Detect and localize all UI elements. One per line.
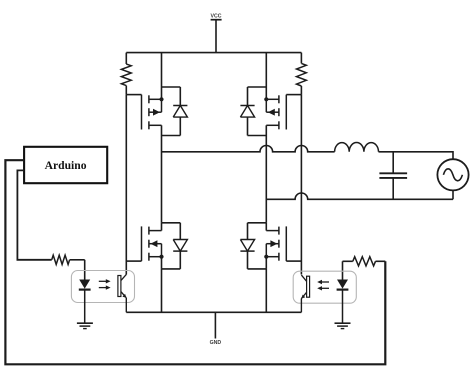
- wire left gate line: [125, 95, 127, 275]
- power flag VCC: [211, 14, 222, 20]
- svg-text:VCC: VCC: [211, 14, 222, 20]
- diode D3 (body diode Q3): [173, 223, 187, 269]
- ground (U2 LED cathode): [335, 323, 351, 328]
- wire VCC stub: [215, 20, 217, 53]
- wire R3 to LED U1: [70, 260, 85, 280]
- svg-text:Arduino: Arduino: [45, 159, 87, 172]
- node A (left bridge output): [161, 136, 163, 223]
- wire R4 to LED U2: [343, 261, 353, 279]
- transistor Q4 (bottom-right N-MOSFET): [248, 223, 302, 269]
- AC source V1: [437, 159, 468, 190]
- wire inductor to AC source: [379, 152, 454, 159]
- transistor Q1 (top-left P-MOSFET): [126, 87, 180, 136]
- wire source Q3 to bottom rail: [161, 269, 163, 312]
- transistor Q2 (top-right P-MOSFET): [248, 87, 302, 136]
- resistor R3: [52, 255, 70, 264]
- wire output A to inductor (with crossover hops): [162, 146, 335, 152]
- wire AC source bottom lead: [452, 190, 454, 199]
- diode D4 (body diode Q4): [240, 223, 254, 269]
- diode D1 (body diode Q1): [173, 87, 187, 136]
- wire Arduino pin1 feedback loop: [5, 160, 385, 364]
- wire bottom rail: [126, 311, 301, 313]
- wire R4 to feedback wire: [376, 260, 386, 262]
- capacitor C1: [379, 152, 407, 200]
- wire U1 emitter to bottom rail: [125, 298, 127, 313]
- wire Arduino pin2 to R3: [17, 170, 51, 259]
- wire U2 emitter to bottom rail: [300, 299, 302, 313]
- transistor Q3 (bottom-left N-MOSFET): [126, 223, 180, 269]
- resistor R2: [297, 53, 307, 95]
- wire top rail VCC: [126, 52, 301, 54]
- ground (U1 LED cathode): [77, 323, 93, 328]
- inductor L1: [335, 143, 379, 152]
- ground GND (bottom rail): [210, 312, 222, 346]
- optocoupler U1: [71, 271, 134, 323]
- svg-text:GND: GND: [210, 340, 222, 346]
- resistor R1: [121, 53, 131, 95]
- wire output B to AC source (with crossover hop): [266, 193, 453, 199]
- diode D2 (body diode Q2): [240, 87, 254, 136]
- optocoupler U2: [293, 271, 356, 323]
- node B (right bridge output): [265, 136, 267, 223]
- wire right gate line: [300, 95, 302, 275]
- wire source Q4 to bottom rail: [265, 269, 267, 312]
- wire left leg (source Q1 to rail): [161, 53, 163, 87]
- resistor R4: [353, 257, 376, 266]
- wire right leg (source Q2 to rail): [265, 53, 267, 87]
- Arduino module U3: [24, 147, 107, 183]
